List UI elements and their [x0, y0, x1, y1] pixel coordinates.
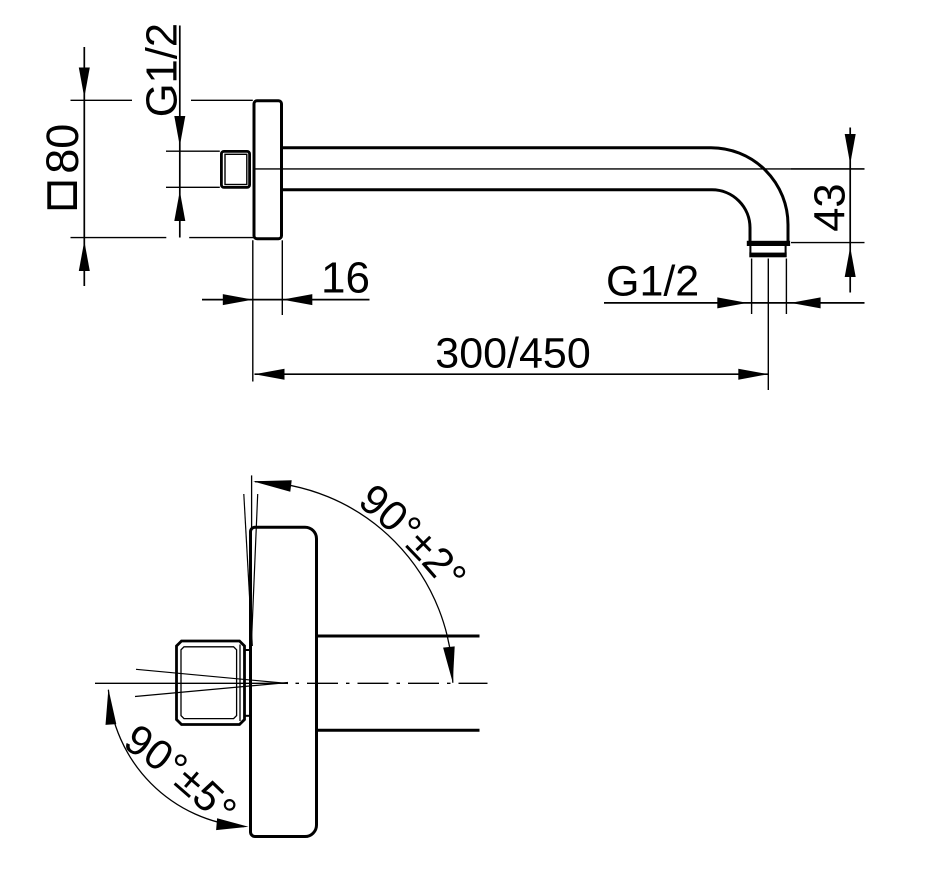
dimension 43: extension line (bottom)	[791, 242, 865, 244]
arc 90°±2°: arrowheads	[253, 480, 292, 492]
arm axis extension line (for dim 43)	[255, 168, 865, 170]
nozzle tip at arm end	[747, 241, 790, 258]
dimension 300/450: extension line	[767, 259, 769, 391]
angle dimension arc 90°±5°	[108, 690, 244, 827]
threaded tail nut (side view)	[221, 151, 249, 187]
svg-text:G1/2: G1/2	[606, 257, 699, 305]
dimension G1/2 (left): dimension line and arrows	[179, 26, 181, 238]
angular tolerance fan lines (±5°)	[136, 669, 288, 683]
centerline (dash-dot axis, bottom view)	[95, 682, 288, 684]
vertical reference line (±2°)	[251, 475, 253, 530]
svg-text:G1/2: G1/2	[139, 23, 187, 117]
dimension 16: extension lines	[253, 240, 282, 381]
dimension G1/2 (bottom right): extension lines	[752, 259, 787, 315]
angular tolerance fan lines (±2°)	[244, 494, 253, 646]
angle dimension arc 90°±2°	[255, 482, 453, 683]
svg-text:300/450: 300/450	[435, 330, 590, 378]
dimension 16: dimension line and arrows	[202, 299, 370, 301]
svg-text:80: 80	[37, 124, 88, 174]
wall plate (bottom view)	[251, 527, 317, 836]
shower arm tube (side view)	[283, 148, 788, 242]
dimension G1/2 (bottom right): dimension line and arrows	[604, 302, 865, 304]
dimension 80: dimension line and arrows	[83, 47, 85, 286]
dimension 300/450: dimension line and arrows	[255, 373, 769, 375]
dimension 43: dimension line and arrows	[849, 128, 851, 293]
dimension 80: extension lines	[71, 100, 255, 237]
threaded fitting (bottom view)	[177, 641, 245, 725]
svg-text:16: 16	[321, 253, 370, 302]
arc 90°±5°: arrowheads	[106, 689, 117, 725]
wall plate (side view, top drawing)	[254, 101, 282, 239]
svg-text:43: 43	[807, 183, 855, 231]
dimension 80: label (rotated)	[49, 184, 75, 208]
arm tube (bottom view)	[316, 635, 480, 638]
dimension G1/2 (left): extension lines	[166, 151, 220, 187]
